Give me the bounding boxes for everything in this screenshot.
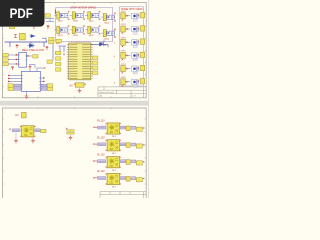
svg-text:REAL TIME CLOCK: REAL TIME CLOCK xyxy=(22,49,45,52)
svg-text:PDF: PDF xyxy=(10,6,33,22)
svg-text:Rotor ctrl board: Rotor ctrl board xyxy=(100,91,115,94)
svg-text:STEP MOTOR DRIVE: STEP MOTOR DRIVE xyxy=(70,5,96,9)
svg-text:RN1: RN1 xyxy=(56,43,61,45)
svg-text:X2: X2 xyxy=(70,84,74,88)
